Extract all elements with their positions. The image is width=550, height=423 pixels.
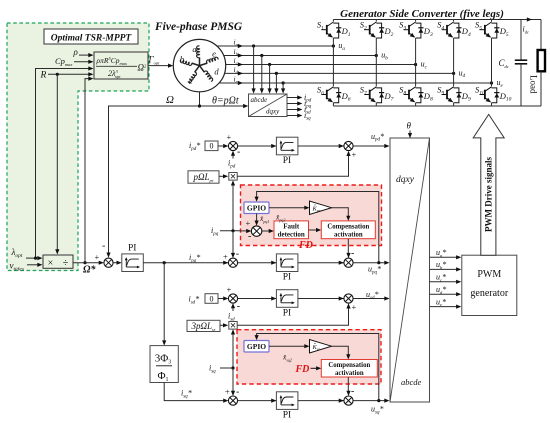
node u_a on leg 1 bbox=[332, 44, 335, 47]
wire leg 5 top bbox=[491, 20, 493, 22]
load resistor bbox=[538, 50, 545, 71]
tap node phase c bbox=[268, 63, 271, 66]
svg-text:-: - bbox=[236, 387, 239, 398]
wire junction to PI row1 bbox=[238, 145, 277, 147]
wire PI to junction2 row6 bbox=[298, 400, 344, 402]
transistor S6 + diode D6 bbox=[317, 85, 351, 103]
wire leg 3 bottom bbox=[415, 103, 417, 106]
wire tap b down to transform bbox=[261, 56, 263, 91]
wire Omega* feedback up into formula box bbox=[85, 79, 91, 263]
wire phase d from machine to converter leg bbox=[225, 72, 454, 74]
wire DC+ top rail bbox=[333, 19, 541, 21]
capacitor C_dc bbox=[515, 60, 527, 64]
wire i_pq down to junction row3 bbox=[232, 231, 234, 255]
wire compensation 1 to junction2 bbox=[347, 239, 349, 255]
wire v_tides bbox=[27, 264, 40, 266]
wire i_pq up to multiplier bbox=[232, 183, 234, 231]
svg-text:-: - bbox=[351, 248, 354, 259]
transistor S3 + diode D3 bbox=[399, 20, 433, 38]
stator coil a bbox=[192, 44, 199, 66]
wire i_sq in bbox=[220, 367, 233, 369]
wire tap d down to transform bbox=[275, 73, 277, 90]
wire leg 4 to phase node bbox=[453, 38, 455, 73]
wire leg 4 top bbox=[453, 20, 455, 22]
wire to 3Phi box bbox=[163, 263, 165, 343]
svg-text:Compensation: Compensation bbox=[328, 362, 370, 369]
PI controller speed bbox=[122, 254, 144, 272]
wire Omega from machine down-left to speed loop bbox=[109, 92, 246, 255]
svg-text:PI: PI bbox=[283, 156, 291, 166]
multiply-divide block bbox=[43, 255, 73, 268]
transform block abcde to dqxy bbox=[249, 94, 288, 117]
node R branch bbox=[56, 73, 59, 76]
summing junction2 row1 bbox=[344, 141, 353, 150]
PI controller row6 bbox=[276, 392, 298, 410]
svg-text:+: + bbox=[225, 387, 230, 397]
svg-text:PI: PI bbox=[283, 273, 291, 283]
svg-text:e: e bbox=[212, 49, 216, 59]
svg-text:Generator Side Converter (five: Generator Side Converter (five legs) bbox=[340, 8, 504, 20]
svg-text:-: - bbox=[237, 147, 240, 158]
current arrow i_d bbox=[238, 71, 243, 75]
wire u_c* to PWM generator bbox=[430, 281, 459, 283]
summing junction2 row4 bbox=[344, 294, 353, 303]
svg-text:×: × bbox=[48, 258, 54, 269]
svg-text:0: 0 bbox=[210, 294, 214, 303]
wire phase b from machine to converter leg bbox=[224, 55, 377, 57]
PI controller row4 bbox=[276, 290, 298, 308]
node u_b on leg 2 bbox=[375, 54, 378, 57]
GPIO observer box 2 bbox=[244, 341, 269, 353]
svg-text:+: + bbox=[95, 252, 100, 262]
Optimal TSR-MPPT dashed green region (L-shape) bbox=[7, 23, 149, 271]
svg-text:Fault: Fault bbox=[283, 222, 300, 230]
current arrow i_e bbox=[238, 81, 243, 85]
FD compensation dashed box 2 bbox=[237, 330, 381, 384]
wire leg 2 top bbox=[375, 20, 377, 22]
wire load branch upper bbox=[540, 20, 542, 51]
tap node phase a bbox=[252, 44, 255, 47]
wire leg 1 bottom bbox=[332, 103, 334, 106]
inverse transform block dqxy to abcde bbox=[390, 138, 430, 402]
summing junction row1 bbox=[228, 141, 237, 150]
wire leg 1 phase to lower switch bbox=[332, 46, 334, 86]
svg-text:dqxy: dqxy bbox=[266, 108, 280, 116]
GPIO observer box 1 bbox=[244, 202, 269, 214]
stator coil e bbox=[200, 49, 219, 66]
wire gain to multiplier 2 bbox=[220, 324, 225, 326]
PMSG machine circle bbox=[173, 39, 225, 91]
node i_pq bbox=[231, 229, 234, 232]
wire leg 5 to phase node bbox=[491, 38, 493, 83]
svg-text:+: + bbox=[223, 252, 228, 262]
svg-text:GPIO: GPIO bbox=[247, 204, 266, 213]
svg-text:+: + bbox=[227, 285, 232, 295]
svg-text:Ω*: Ω* bbox=[83, 265, 96, 276]
wire leg 3 to phase node bbox=[415, 38, 417, 65]
node u_e on leg 5 bbox=[490, 81, 493, 84]
svg-text:b: b bbox=[180, 54, 184, 64]
wire u_b* to PWM generator bbox=[430, 268, 459, 270]
wire 0 to junction bbox=[218, 145, 225, 147]
wire to speed PI bbox=[113, 262, 119, 264]
wire 3Phi output to row6 bbox=[164, 383, 225, 401]
ratio box 3Phi3/Phi1 bbox=[150, 346, 178, 383]
svg-text:FD: FD bbox=[298, 240, 313, 251]
svg-text:3pΩLsr: 3pΩLsr bbox=[190, 321, 215, 332]
wire i_pq in bbox=[220, 230, 241, 232]
wire u_pd* to transform bbox=[353, 145, 387, 147]
gain box pOmegaL_pr bbox=[188, 171, 219, 183]
transistor S9 + diode D9 bbox=[437, 85, 471, 103]
svg-text:PI: PI bbox=[128, 244, 136, 254]
fraction bar bbox=[96, 65, 137, 67]
gain K_pr triangle bbox=[310, 201, 332, 215]
node Omega bbox=[198, 104, 201, 107]
node i_pq* branch bbox=[163, 261, 166, 264]
tap node phase d bbox=[275, 72, 278, 75]
wire load branch lower bbox=[540, 71, 542, 106]
node u_sq* bbox=[377, 399, 380, 402]
svg-text:θ=pΩt: θ=pΩt bbox=[212, 96, 239, 107]
wire Cpmax bbox=[74, 61, 91, 63]
svg-text:dqxy: dqxy bbox=[396, 175, 415, 185]
svg-text:PWM Drive signals: PWM Drive signals bbox=[484, 157, 494, 232]
wire u_pq* to transform bbox=[353, 262, 387, 264]
svg-text:+: + bbox=[352, 150, 357, 160]
wire GPIO to K_pr bbox=[269, 207, 307, 209]
transistor S7 + diode D7 bbox=[360, 85, 394, 103]
svg-text:Ω: Ω bbox=[166, 94, 174, 106]
gain K_sr triangle bbox=[310, 340, 332, 354]
Fault detection box bbox=[274, 221, 309, 239]
svg-text:Optimal TSR-MPPT: Optimal TSR-MPPT bbox=[51, 34, 133, 44]
FD fault-detection dashed box 1 bbox=[241, 185, 382, 246]
wire leg 3 top bbox=[415, 20, 417, 22]
node u_c on leg 3 bbox=[414, 63, 417, 66]
wire 0 to junction row4 bbox=[218, 298, 225, 300]
svg-text:PI: PI bbox=[283, 308, 291, 318]
node lambda_opt bbox=[34, 257, 37, 260]
svg-text:abcde: abcde bbox=[401, 377, 422, 387]
wire u_sq* feedback into GPIO 2 bbox=[257, 334, 379, 401]
svg-text:Compensation: Compensation bbox=[327, 223, 369, 230]
wire i_sd output bbox=[287, 109, 299, 111]
wire leg 5 bottom bbox=[491, 103, 493, 106]
wire DC- bottom rail bbox=[333, 105, 541, 107]
svg-text:+: + bbox=[227, 132, 232, 142]
transistor S8 + diode D8 bbox=[399, 85, 433, 103]
node i_sq bbox=[231, 366, 234, 369]
wire x_pq1 to junction bbox=[256, 214, 258, 223]
gain box 3pOmegaL_sr bbox=[187, 320, 220, 331]
wire multiplier to junction2 row1 bbox=[237, 154, 348, 177]
wire Gamma_opt bbox=[148, 65, 170, 67]
svg-text:-: - bbox=[236, 249, 239, 260]
summing junction row6 bbox=[228, 396, 237, 405]
summing junction FD residual bbox=[251, 226, 261, 236]
wire junction to PI row3 bbox=[238, 262, 277, 264]
wire leg 2 bottom bbox=[375, 103, 377, 106]
wire i_pd output bbox=[287, 97, 299, 99]
svg-text:-: - bbox=[248, 231, 251, 242]
wire u_a* to PWM generator bbox=[430, 256, 459, 258]
wire u_e* to PWM generator bbox=[430, 306, 459, 308]
wire i_sd feedback stub bbox=[232, 306, 234, 311]
svg-text:-: - bbox=[351, 386, 354, 397]
wire phase a from machine to converter leg bbox=[217, 45, 334, 47]
svg-text:θ: θ bbox=[407, 121, 412, 131]
wire lambda_opt bbox=[26, 257, 40, 259]
svg-text:ρ: ρ bbox=[73, 47, 79, 57]
wire i_pd feedback stub bbox=[232, 154, 234, 159]
wire leg 4 phase to lower switch bbox=[453, 73, 455, 86]
wire tap e down to transform bbox=[282, 83, 284, 91]
svg-text:Load: Load bbox=[529, 75, 539, 94]
tap node phase e bbox=[282, 81, 285, 84]
svg-text:a: a bbox=[192, 44, 196, 54]
svg-text:detection: detection bbox=[278, 230, 305, 238]
wire i_pq into FD junction bbox=[241, 230, 249, 232]
svg-text:c: c bbox=[189, 76, 193, 86]
wire gain to multiplier bbox=[219, 175, 225, 177]
svg-text:GPIO: GPIO bbox=[247, 342, 266, 351]
svg-text:generator: generator bbox=[470, 288, 508, 299]
wire theta into transform bbox=[409, 131, 411, 136]
wire i_sq output bbox=[287, 115, 299, 117]
svg-text:PI: PI bbox=[283, 410, 291, 420]
node u_d on leg 4 bbox=[452, 72, 455, 75]
wire i_sq down to junction row6 bbox=[232, 368, 234, 393]
zero reference box bbox=[205, 141, 218, 151]
summing junction2 row6 bbox=[344, 396, 353, 405]
wire tap c down to transform bbox=[269, 65, 271, 91]
wire i_sq up to multiplier 2 bbox=[232, 332, 234, 368]
svg-text:0: 0 bbox=[210, 142, 214, 151]
wire i_pq output bbox=[287, 103, 299, 105]
transistor S1 + diode D1 bbox=[317, 20, 351, 38]
transistor S4 + diode D4 bbox=[437, 20, 471, 38]
wire u_sd* to transform bbox=[353, 298, 387, 300]
svg-text:abcde: abcde bbox=[251, 96, 268, 104]
wire phase c from machine to converter leg bbox=[226, 64, 416, 66]
zero reference box 2 bbox=[205, 294, 218, 304]
MPPT torque formula box bbox=[94, 52, 148, 79]
wire leg 1 to phase node bbox=[332, 38, 334, 46]
wire R bbox=[48, 73, 91, 75]
node u_pq* bbox=[377, 261, 380, 264]
svg-text:+: + bbox=[352, 302, 357, 312]
transistor S10 + diode D10 bbox=[475, 85, 512, 103]
svg-text:+: + bbox=[246, 218, 251, 228]
PWM drive signals block arrow bbox=[473, 114, 504, 255]
wire tap a down to transform bbox=[253, 46, 255, 91]
wire junction to PI row6 bbox=[238, 400, 277, 402]
summing junction row4 bbox=[228, 294, 237, 303]
wire compensation 2 to junction2 row6 bbox=[347, 377, 349, 393]
wire cap branch lower bbox=[520, 64, 522, 106]
wire R down to divider bbox=[56, 74, 58, 251]
wire lambda_opt up into formula box bbox=[36, 69, 91, 259]
PI controller row3 bbox=[276, 254, 298, 272]
stator coil d bbox=[200, 66, 220, 82]
stator coil b bbox=[180, 54, 200, 66]
summing junction speed loop bbox=[104, 258, 113, 267]
wire PI to junction2 row1 bbox=[298, 145, 344, 147]
tap node phase b bbox=[260, 54, 263, 57]
wire u_d* to PWM generator bbox=[430, 293, 459, 295]
svg-text:-: - bbox=[102, 241, 105, 252]
wire fault to compensation bbox=[309, 229, 319, 231]
wire multiplier2 to junction2 row4 bbox=[237, 306, 348, 325]
wire leg 2 phase to lower switch bbox=[375, 56, 377, 87]
multiplier row2 bbox=[229, 173, 237, 181]
wire residual to fault detection bbox=[262, 230, 271, 232]
label box Optimal TSR-MPPT bbox=[44, 29, 138, 44]
multiplier row5 bbox=[229, 322, 237, 330]
wire leg 1 top bbox=[332, 20, 334, 22]
wire i_pq* reference bbox=[143, 262, 228, 264]
wire leg 4 bottom bbox=[453, 103, 455, 106]
current arrow i_dc bbox=[527, 17, 532, 21]
svg-text:Five-phase PMSG: Five-phase PMSG bbox=[154, 21, 243, 33]
wire PI to junction2 row3 bbox=[298, 262, 344, 264]
wire K_pr to compensation activation bbox=[332, 208, 349, 218]
wire u_sq* to transform bbox=[353, 400, 387, 402]
PI controller row1 bbox=[276, 137, 298, 155]
transistor S5 + diode D5 bbox=[475, 20, 509, 38]
wire rho bbox=[79, 54, 91, 56]
wire PI to junction2 row4 bbox=[298, 298, 344, 300]
wire leg 5 phase to lower switch bbox=[491, 83, 493, 86]
svg-text:activation: activation bbox=[334, 231, 363, 238]
summing junction2 row3 bbox=[344, 258, 353, 267]
current arrow i_a bbox=[238, 44, 243, 48]
wire K_sr to compensation activation 2 bbox=[332, 346, 349, 356]
wire leg 2 to phase node bbox=[375, 38, 377, 56]
svg-text:R: R bbox=[40, 71, 47, 81]
Compensation activation box 2 bbox=[321, 360, 377, 378]
wire junction to PI row4 bbox=[238, 298, 277, 300]
stator coil c bbox=[188, 66, 199, 86]
wire phase e from machine to converter leg bbox=[219, 82, 491, 84]
svg-text:activation: activation bbox=[335, 370, 364, 377]
wire u_pq* feedback into GPIO 1 bbox=[257, 192, 379, 263]
Compensation activation box 1 bbox=[321, 221, 375, 239]
PWM generator box bbox=[462, 255, 517, 315]
wire cap branch upper bbox=[520, 20, 522, 61]
wire FD into compensation 2 bbox=[311, 367, 319, 369]
svg-text:FD: FD bbox=[295, 364, 310, 375]
node Omega* bbox=[83, 261, 86, 264]
wire GPIO2 to K_sr bbox=[269, 345, 307, 347]
transistor S2 + diode D2 bbox=[360, 20, 394, 38]
svg-text:-: - bbox=[237, 301, 240, 312]
svg-text:PWM: PWM bbox=[477, 269, 501, 280]
wire Omega* reference bbox=[73, 262, 101, 264]
svg-text:÷: ÷ bbox=[63, 258, 69, 269]
current arrow i_c bbox=[238, 62, 243, 66]
wire leg 3 phase to lower switch bbox=[415, 65, 417, 87]
current arrow i_b bbox=[238, 53, 243, 57]
summing junction row3 bbox=[228, 258, 237, 267]
